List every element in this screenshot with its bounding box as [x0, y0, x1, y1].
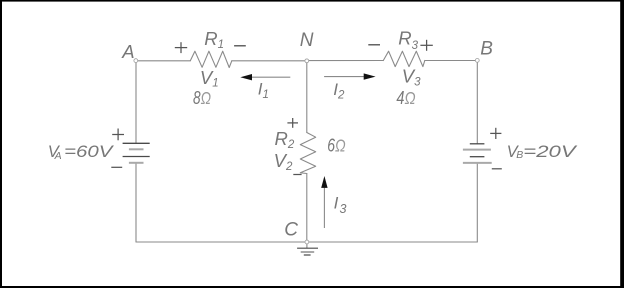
battery VB plus sign [490, 128, 501, 139]
svg-text:B: B [516, 149, 523, 161]
wire N down to R2 [306, 61, 308, 133]
battery VA plus sign [112, 129, 124, 141]
resistor R1 [190, 51, 232, 67]
resistor R3 [383, 51, 425, 66]
plus sign above R2 [287, 118, 298, 128]
wire R1 to N [232, 60, 307, 62]
wire A down to battery VA [135, 61, 137, 144]
wire battery VA down to bottom [135, 163, 137, 242]
svg-text:C: C [284, 220, 298, 241]
resistor R2 [300, 133, 315, 174]
wire N to R3 [307, 60, 384, 62]
svg-text:=20V: =20V [523, 143, 578, 161]
battery VA minus sign [111, 166, 122, 168]
wire B down to battery VB [476, 61, 478, 144]
minus sign left of R3 [368, 44, 380, 46]
svg-text:4Ω: 4Ω [396, 88, 415, 108]
node C [305, 240, 309, 244]
node N [305, 59, 309, 63]
battery VB minus sign [492, 168, 502, 170]
battery VA [123, 143, 150, 163]
current arrow I3 [321, 176, 327, 228]
node A [134, 59, 138, 63]
plus sign right of R3 [420, 40, 432, 51]
wire R2 to C [306, 174, 308, 243]
border frame [0, 0, 624, 2]
current arrow I2 [324, 73, 376, 79]
current arrow I1 [240, 74, 290, 80]
svg-text:B: B [480, 39, 493, 60]
wire battery VB down to bottom [476, 163, 478, 242]
svg-text:A: A [121, 41, 134, 62]
bottom wire [136, 241, 477, 243]
wire A to R1 [136, 60, 190, 62]
minus sign below R2 [293, 174, 301, 176]
minus sign right of R1 [234, 45, 246, 47]
svg-text:=60V: =60V [64, 143, 115, 161]
plus sign left of R1 [175, 42, 187, 53]
svg-text:N: N [300, 30, 314, 51]
svg-text:A: A [54, 150, 62, 162]
svg-text:6Ω: 6Ω [327, 136, 346, 156]
wire R3 to B [425, 60, 478, 62]
svg-text:8Ω: 8Ω [193, 88, 211, 108]
node B [475, 59, 479, 63]
battery VB [463, 144, 492, 163]
ground at node C [297, 242, 318, 255]
